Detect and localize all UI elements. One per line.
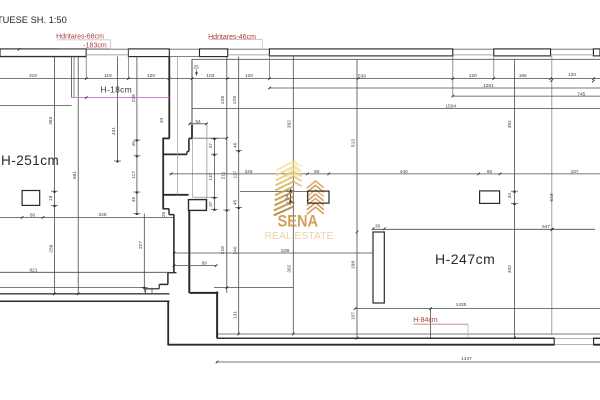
svg-text:745: 745 xyxy=(577,91,585,97)
svg-text:821: 821 xyxy=(29,268,37,274)
svg-text:947: 947 xyxy=(542,224,550,230)
svg-text:437: 437 xyxy=(570,169,578,175)
svg-text:H-84cm: H-84cm xyxy=(413,317,438,324)
svg-text:131: 131 xyxy=(232,311,238,319)
svg-text:392: 392 xyxy=(286,264,292,272)
svg-text:1447: 1447 xyxy=(461,356,472,362)
svg-text:218: 218 xyxy=(220,246,226,254)
svg-text:60: 60 xyxy=(487,169,493,175)
svg-text:348: 348 xyxy=(98,212,106,218)
svg-text:120: 120 xyxy=(245,73,253,79)
svg-text:107: 107 xyxy=(351,312,357,320)
svg-text:19: 19 xyxy=(48,195,54,201)
svg-text:120: 120 xyxy=(568,72,576,78)
svg-text:20: 20 xyxy=(159,118,165,124)
svg-text:198: 198 xyxy=(350,261,356,269)
svg-text:618: 618 xyxy=(549,193,555,201)
svg-text:SENA: SENA xyxy=(278,212,319,230)
svg-text:H-18cm: H-18cm xyxy=(101,85,133,95)
svg-text:34: 34 xyxy=(507,193,513,199)
svg-text:45: 45 xyxy=(131,141,137,147)
svg-text:166: 166 xyxy=(519,73,527,79)
svg-text:393: 393 xyxy=(48,116,54,124)
svg-text:37: 37 xyxy=(208,143,214,149)
svg-text:TUESE SH. 1:50: TUESE SH. 1:50 xyxy=(0,15,67,25)
svg-text:34: 34 xyxy=(284,194,290,200)
svg-text:45: 45 xyxy=(232,200,238,206)
svg-text:120: 120 xyxy=(469,73,477,79)
svg-text:37: 37 xyxy=(208,201,214,207)
svg-text:137: 137 xyxy=(208,172,214,180)
svg-text:69: 69 xyxy=(202,260,208,266)
svg-text:392: 392 xyxy=(507,120,513,128)
svg-text:227: 227 xyxy=(138,241,144,249)
svg-text:431: 431 xyxy=(111,127,117,135)
svg-text:25: 25 xyxy=(194,65,200,71)
svg-text:H-251cm: H-251cm xyxy=(1,153,59,168)
svg-text:120: 120 xyxy=(147,73,155,79)
svg-text:691: 691 xyxy=(72,171,78,179)
svg-text:45: 45 xyxy=(131,197,137,203)
svg-text:302: 302 xyxy=(507,265,513,273)
svg-text:228: 228 xyxy=(131,94,137,102)
svg-text:211: 211 xyxy=(221,171,227,179)
svg-text:60: 60 xyxy=(30,212,36,218)
svg-text:259: 259 xyxy=(48,244,54,252)
svg-text:103: 103 xyxy=(206,73,214,79)
svg-text:228: 228 xyxy=(232,96,238,104)
svg-text:240: 240 xyxy=(233,246,239,254)
svg-text:46: 46 xyxy=(232,142,238,148)
svg-text:348: 348 xyxy=(244,169,252,175)
svg-text:310: 310 xyxy=(29,73,37,79)
svg-text:1504: 1504 xyxy=(445,104,456,110)
svg-text:Hdritares-46cm: Hdritares-46cm xyxy=(208,34,256,41)
svg-text:25: 25 xyxy=(161,212,167,218)
svg-text:392: 392 xyxy=(286,120,292,128)
svg-text:Hdritares-68cm: Hdritares-68cm xyxy=(56,34,104,41)
svg-text:119: 119 xyxy=(104,73,112,79)
svg-text:1281: 1281 xyxy=(483,83,494,89)
svg-text:H-247cm: H-247cm xyxy=(435,251,495,267)
svg-text:117: 117 xyxy=(232,171,238,179)
svg-text:REAL ESTATE: REAL ESTATE xyxy=(265,231,334,242)
svg-text:30: 30 xyxy=(375,224,381,230)
svg-text:539: 539 xyxy=(281,248,289,254)
svg-text:54: 54 xyxy=(195,119,201,125)
svg-text:117: 117 xyxy=(131,171,137,179)
svg-text:536: 536 xyxy=(358,74,366,80)
svg-text:60: 60 xyxy=(314,169,320,175)
svg-text:228: 228 xyxy=(220,96,226,104)
svg-text:1435: 1435 xyxy=(456,302,467,308)
svg-text:440: 440 xyxy=(400,169,408,175)
svg-text:513: 513 xyxy=(351,139,357,147)
